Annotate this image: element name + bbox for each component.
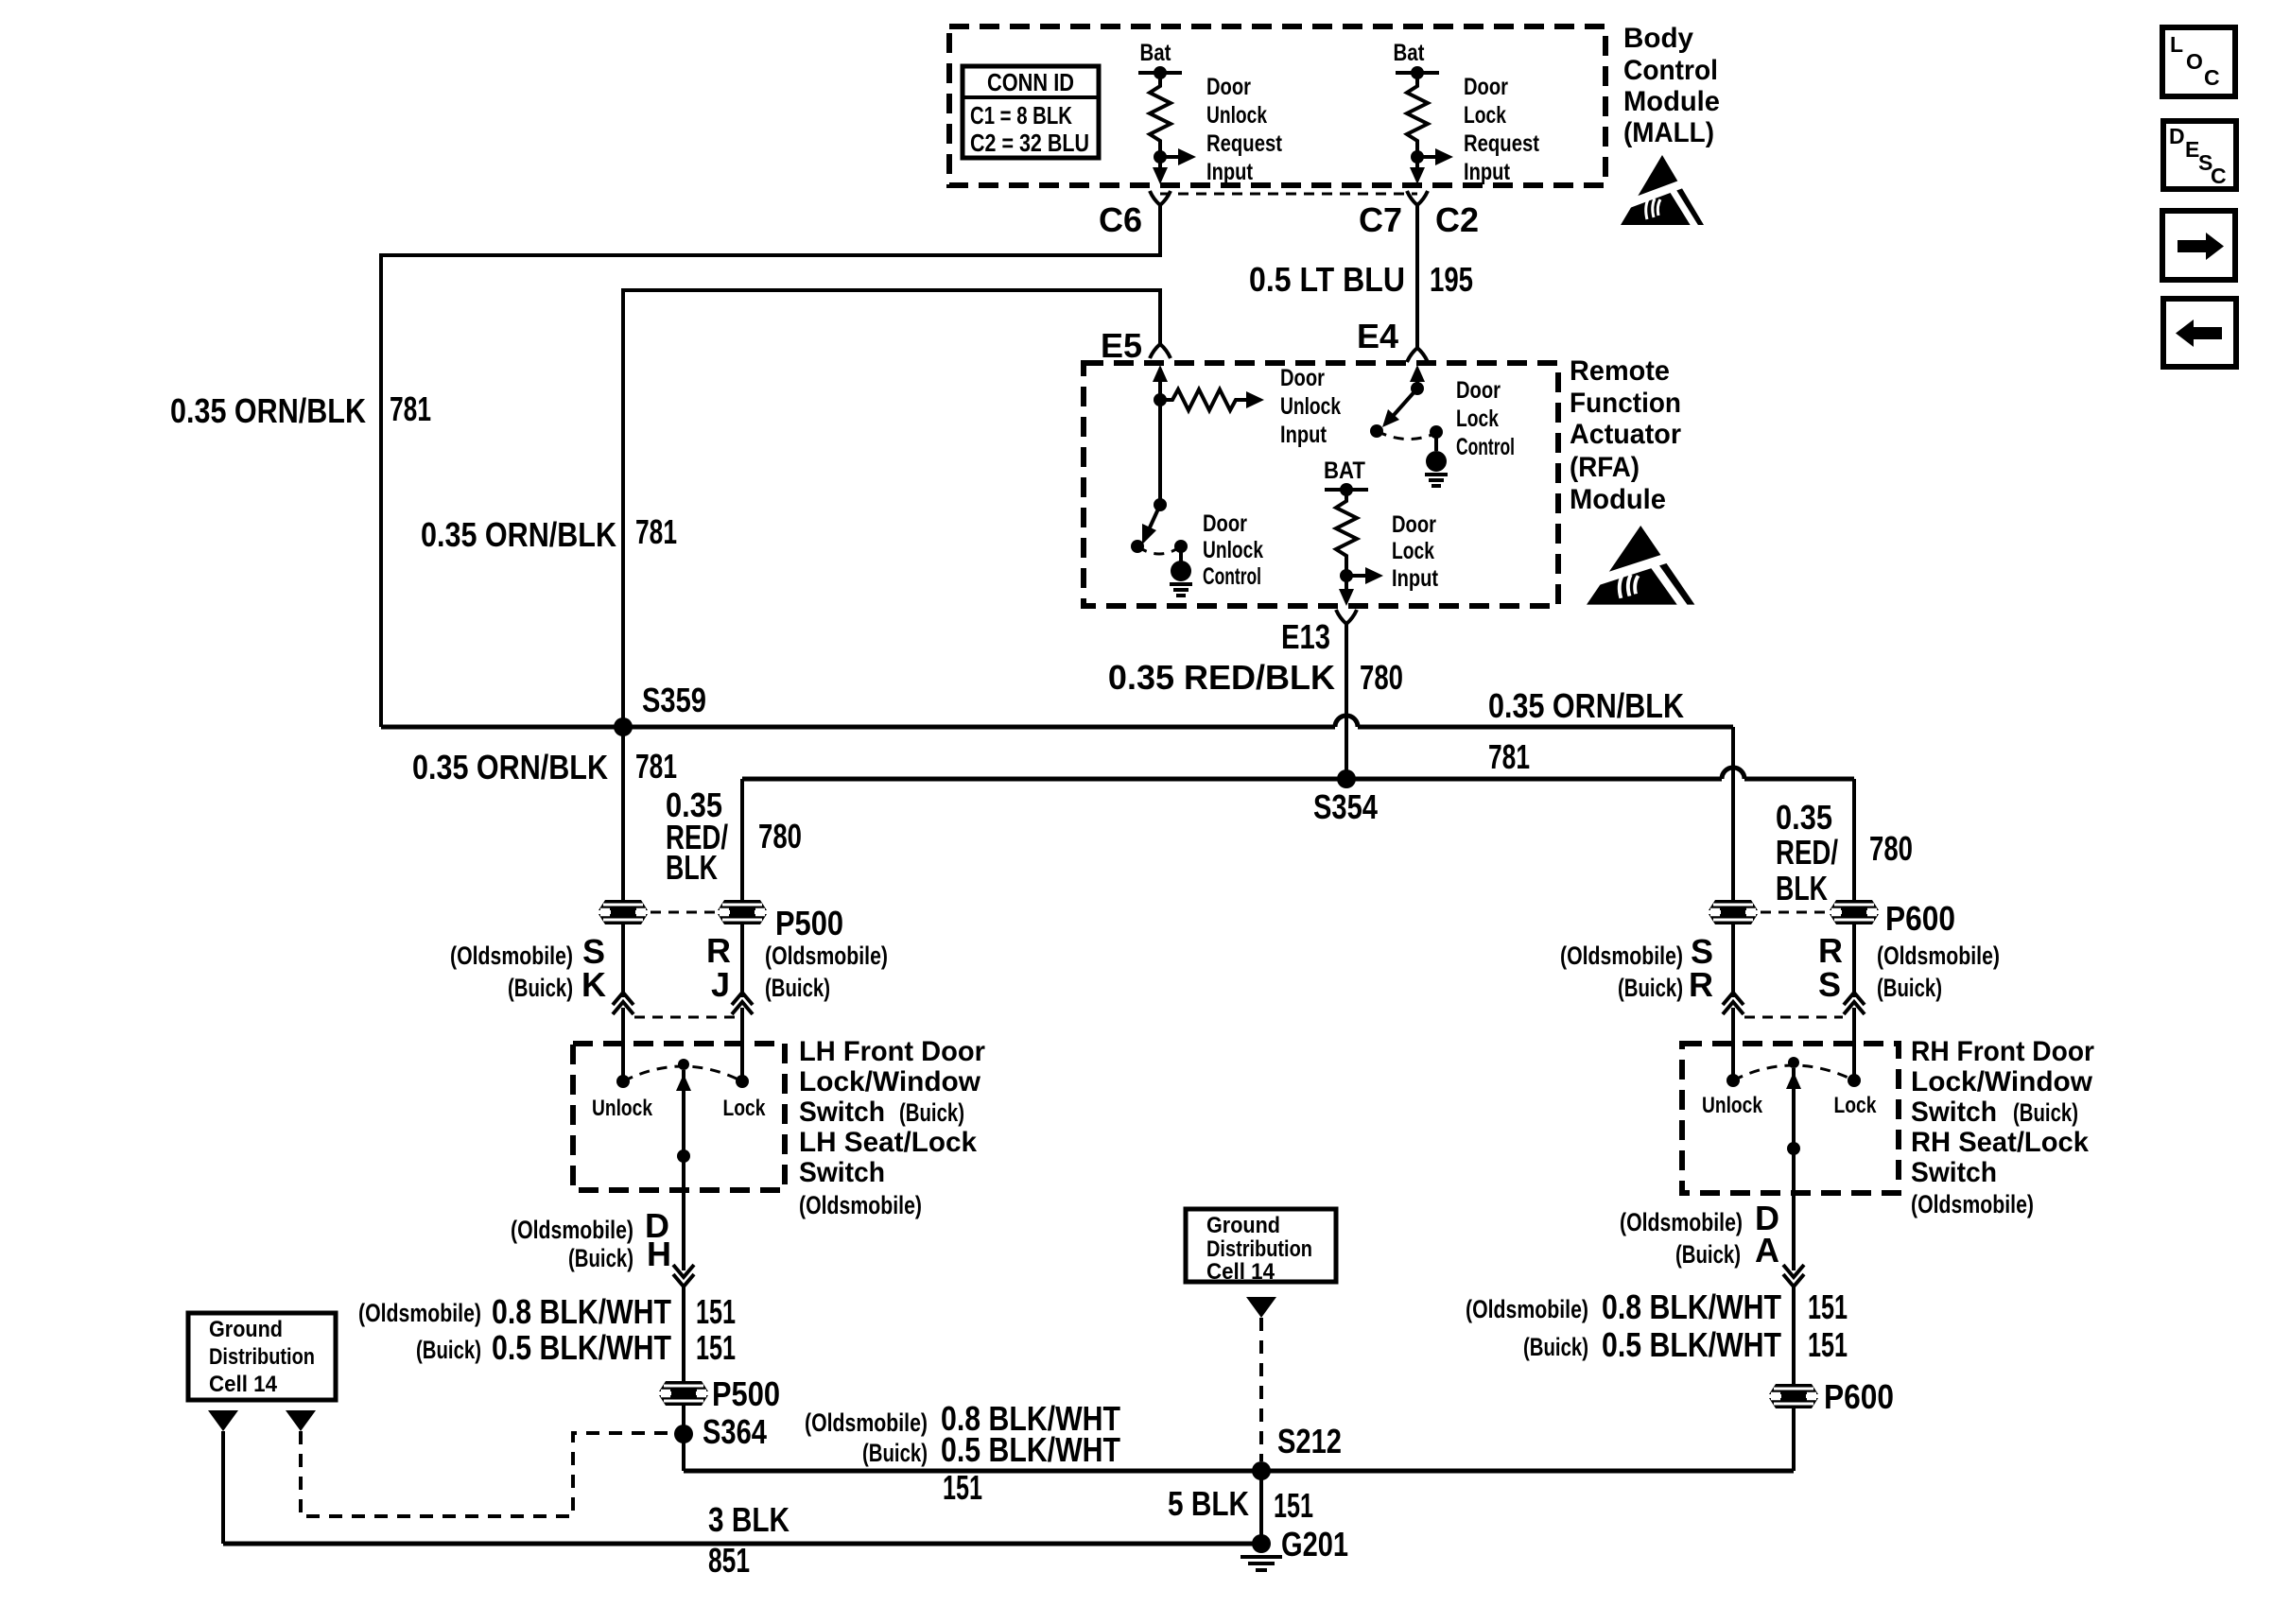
module box: Body Control Module [949,26,1605,185]
svg-text:781: 781 [635,512,677,551]
wire: E5 route to S359 [623,290,1160,727]
svg-text:Ground: Ground [1206,1213,1280,1238]
svg-text:781: 781 [1488,737,1530,776]
svg-text:Switch: Switch [799,1157,885,1188]
ground distribution box (middle) [1186,1209,1336,1282]
svg-text:BLK: BLK [1776,869,1828,907]
svg-text:(Buick): (Buick) [862,1439,928,1467]
svg-text:Remote: Remote [1570,355,1670,387]
switch: Door Lock Control (RFA) [1370,377,1515,486]
svg-text:Request: Request [1464,130,1540,157]
svg-text:0.8 BLK/WHT: 0.8 BLK/WHT [492,1292,671,1331]
connector P500 (left half) [599,900,648,924]
svg-text:K: K [581,965,606,1004]
svg-text:Lock: Lock [1456,406,1499,432]
wire: C6 to left drop [381,205,1160,727]
connector P600 (left half) [1709,900,1758,924]
wire: C7 to E4, 0.5 LT BLU 195 [1415,205,1419,348]
wire: LH common down [682,1190,685,1270]
svg-text:C2 = 32 BLU: C2 = 32 BLU [970,129,1089,157]
svg-text:RH Front Door: RH Front Door [1911,1036,2094,1067]
module box: Remote Function Actuator [1084,363,1558,606]
svg-text:(Oldsmobile): (Oldsmobile) [358,1299,481,1327]
svg-text:P600: P600 [1824,1377,1894,1416]
svg-text:(Buick): (Buick) [568,1244,633,1272]
resistor: BAT / Door Lock Input (RFA) [1324,458,1439,606]
dashed link: GD box to S364 [301,1431,673,1516]
svg-text:0.35 ORN/BLK: 0.35 ORN/BLK [1488,686,1684,725]
P500 tie line [651,911,715,914]
svg-text:RED/: RED/ [1776,833,1838,872]
svg-text:0.5 BLK/WHT: 0.5 BLK/WHT [492,1328,671,1367]
svg-text:(Buick): (Buick) [1675,1240,1741,1269]
svg-text:Unlock: Unlock [1203,537,1263,563]
P600 tie line [1761,911,1825,914]
CONN ID table [963,66,1099,158]
svg-text:(Oldsmobile): (Oldsmobile) [805,1408,928,1437]
wire: S359 down to P500 left [621,727,625,997]
svg-text:P500: P500 [775,904,843,942]
wire: RED/BLK down to P500 right [740,779,744,997]
BCM title [1623,23,1720,148]
resistor: Door Lock Request Input (BCM) [1394,40,1540,185]
connector E5 [1150,344,1171,358]
svg-text:151: 151 [1274,1486,1313,1525]
RH box title [1911,1036,2094,1188]
svg-text:(Buick): (Buick) [1618,974,1683,1002]
solenoid + ground (Door Lock Control) [1430,425,1443,439]
svg-text:LH Seat/Lock: LH Seat/Lock [799,1127,977,1158]
svg-text:151: 151 [943,1468,982,1507]
RFA title [1570,355,1681,515]
junction S364 [674,1425,693,1443]
svg-text:L: L [2170,32,2183,57]
svg-text:D: D [2169,124,2185,148]
wire: RED/BLK drop to P600 right [1852,779,1856,997]
svg-text:Control: Control [1623,55,1718,86]
svg-text:Lock: Lock [1464,102,1506,129]
svg-text:(Buick): (Buick) [416,1336,481,1364]
svg-text:Bat: Bat [1394,40,1426,66]
connector C6 [1150,191,1171,205]
svg-text:Request: Request [1206,130,1283,157]
svg-text:Door: Door [1456,377,1501,404]
DESC icon [2163,121,2236,189]
svg-text:Actuator: Actuator [1570,419,1681,450]
RH switch common arm arrow [1786,1072,1801,1089]
ground bus 3 BLK 851 [223,1542,1261,1546]
svg-text:Unlock: Unlock [592,1096,653,1121]
wire: P600 down to ground line [1792,1408,1796,1471]
svg-text:0.35 ORN/BLK: 0.35 ORN/BLK [421,515,616,554]
svg-text:Control: Control [1456,434,1515,460]
svg-text:G201: G201 [1281,1525,1348,1564]
svg-text:C1 = 8 BLK: C1 = 8 BLK [970,101,1072,130]
svg-text:Input: Input [1464,159,1511,185]
svg-text:S354: S354 [1313,787,1378,826]
svg-text:LH Front Door: LH Front Door [799,1036,985,1067]
svg-text:Lock: Lock [723,1096,767,1121]
connector C7 [1407,191,1428,205]
LOC icon [2162,27,2235,96]
svg-text:0.35 ORN/BLK: 0.35 ORN/BLK [412,748,608,786]
LH switch common arm arrow [676,1074,691,1091]
svg-text:J: J [711,965,730,1004]
svg-text:S: S [1818,965,1841,1004]
wire: trunk drop to P600 left [1731,727,1735,997]
svg-text:Distribution: Distribution [209,1344,315,1370]
inline connector chevrons (LH pair) [613,993,633,1005]
connector P500 (bottom) [659,1381,708,1406]
connector tie line C6-C7 [1160,193,1417,196]
resistor: Door Unlock Input (RFA) [1154,365,1341,448]
svg-text:(Oldsmobile): (Oldsmobile) [1877,942,2000,970]
svg-text:H: H [647,1235,671,1273]
right-arrow icon [2162,211,2235,280]
svg-text:5 BLK: 5 BLK [1168,1484,1249,1523]
solenoid + ground (Door Unlock Control) [1174,540,1188,553]
svg-text:0.8 BLK/WHT: 0.8 BLK/WHT [1602,1287,1781,1326]
svg-text:Bat: Bat [1140,40,1172,66]
svg-text:Cell 14: Cell 14 [1206,1259,1275,1285]
wire: E13 down to S354 [1345,624,1348,779]
svg-text:(Oldsmobile): (Oldsmobile) [1911,1190,2034,1218]
svg-text:Door: Door [1464,74,1508,100]
ESD symbol (BCM) [1621,155,1704,227]
svg-text:(Buick): (Buick) [765,974,830,1002]
LH box title [799,1036,985,1188]
svg-text:0.35: 0.35 [1776,798,1832,837]
left-arrow icon [2163,299,2236,367]
svg-text:Module: Module [1570,484,1666,515]
wire label 0.35 RED/ BLK 780 (left drop) [666,786,802,887]
svg-text:Switch: Switch [1911,1157,1997,1188]
svg-text:Input: Input [1280,422,1327,448]
dashed drop to S212 [1259,1318,1263,1461]
inline connector chevrons (LH common) [673,1265,694,1277]
svg-text:0.35 ORN/BLK: 0.35 ORN/BLK [170,391,366,430]
svg-text:781: 781 [635,747,677,786]
svg-text:C: C [2204,65,2220,90]
wire: GD box left down to ground bus [221,1431,225,1544]
svg-text:780: 780 [1360,658,1403,697]
svg-text:(Oldsmobile): (Oldsmobile) [799,1191,922,1219]
svg-text:151: 151 [1808,1325,1848,1364]
ground G201 [1252,1534,1271,1553]
svg-text:151: 151 [1808,1287,1848,1326]
svg-text:RH Seat/Lock: RH Seat/Lock [1911,1127,2089,1158]
svg-text:R: R [1818,931,1843,970]
svg-text:CONN ID: CONN ID [987,68,1074,96]
svg-text:0.35 RED/BLK: 0.35 RED/BLK [1108,658,1335,697]
svg-text:C2: C2 [1435,200,1479,239]
svg-text:O: O [2186,49,2203,74]
wire: RH common down [1792,1193,1796,1270]
RFA entry arrow E5 [1153,365,1168,382]
svg-text:(Oldsmobile): (Oldsmobile) [1620,1208,1743,1236]
svg-text:R: R [1689,965,1713,1004]
svg-text:0.5 BLK/WHT: 0.5 BLK/WHT [1602,1325,1781,1364]
svg-text:A: A [1755,1231,1779,1270]
svg-text:Function: Function [1570,388,1681,419]
svg-text:(Buick): (Buick) [2013,1098,2078,1127]
resistor: Door Unlock Request Input (BCM) [1138,40,1283,185]
svg-text:Switch: Switch [799,1097,885,1128]
svg-text:E5: E5 [1101,326,1142,365]
connector P600 (bottom) [1769,1384,1818,1408]
svg-text:(Buick): (Buick) [899,1098,964,1127]
svg-text:(MALL): (MALL) [1623,117,1714,148]
svg-text:Body: Body [1623,23,1693,54]
wire label 0.35 RED/ BLK 780 (right drop) [1776,798,1913,907]
junction S212 [1252,1461,1271,1480]
svg-text:P500: P500 [712,1374,780,1413]
svg-text:Unlock: Unlock [1702,1093,1763,1118]
inline connector chevrons (RH pair) [1723,993,1744,1005]
svg-text:Door: Door [1280,365,1325,391]
wire: S212 down to G201 [1259,1471,1263,1544]
svg-text:Distribution: Distribution [1206,1236,1312,1262]
connector P500 (right half) [718,900,767,924]
svg-text:780: 780 [1869,829,1913,868]
svg-text:Lock/Window: Lock/Window [799,1066,981,1097]
svg-text:851: 851 [708,1541,750,1580]
RH switch contacts [1726,1074,1740,1087]
svg-text:Lock/Window: Lock/Window [1911,1066,2093,1097]
svg-text:Unlock: Unlock [1280,393,1341,420]
svg-text:S364: S364 [703,1412,767,1451]
svg-text:Control: Control [1203,563,1261,590]
ESD symbol (RFA) [1587,526,1694,607]
svg-text:R: R [706,931,731,970]
wire: RED/BLK trunk line (S354 left/right, hop over P600 drop) [742,777,1722,782]
ground distribution box (left) [188,1313,336,1400]
svg-text:Lock: Lock [1392,538,1434,564]
wire: ORN/BLK trunk line (S359 right, hop over E13) [381,725,1335,730]
svg-text:195: 195 [1430,260,1473,299]
switch: Door Unlock Control (RFA) [1131,400,1263,596]
svg-text:0.5 LT BLU: 0.5 LT BLU [1249,260,1405,299]
switch box: LH Front Door Lock/Window Switch [573,1044,785,1190]
svg-text:Cell 14: Cell 14 [209,1372,278,1397]
svg-text:BLK: BLK [666,848,718,887]
ground distribution triangles (left) [208,1410,238,1431]
svg-text:(Oldsmobile): (Oldsmobile) [765,942,888,970]
svg-text:781: 781 [390,389,431,428]
svg-text:Input: Input [1392,565,1439,592]
ground wire line S364 to S212 to RH drop [684,1469,1794,1474]
svg-text:S359: S359 [642,681,706,719]
connector E13 [1336,610,1357,624]
junction S359 [614,717,633,736]
svg-text:151: 151 [696,1328,736,1367]
svg-text:BAT: BAT [1324,458,1365,484]
svg-text:(Oldsmobile): (Oldsmobile) [1466,1295,1588,1323]
RFA entry arrow E4 [1410,365,1425,382]
svg-text:C: C [2211,164,2227,188]
svg-text:(Oldsmobile): (Oldsmobile) [1560,942,1683,970]
svg-text:Module: Module [1623,86,1720,117]
svg-text:Door: Door [1392,511,1436,538]
ground distribution triangle (middle) [1246,1297,1276,1318]
svg-text:0.5 BLK/WHT: 0.5 BLK/WHT [941,1430,1120,1469]
svg-text:Ground: Ground [209,1317,283,1342]
svg-text:P600: P600 [1885,899,1955,938]
svg-text:Door: Door [1206,74,1251,100]
svg-text:(Buick): (Buick) [1523,1333,1588,1361]
svg-text:(Oldsmobile): (Oldsmobile) [511,1216,633,1244]
svg-text:Unlock: Unlock [1206,102,1267,129]
connector E4 [1407,348,1428,362]
svg-text:Door: Door [1203,510,1247,537]
svg-text:780: 780 [758,817,802,855]
svg-text:3 BLK: 3 BLK [708,1500,789,1539]
switch box: RH Front Door Lock/Window Switch [1682,1044,1899,1193]
svg-text:E13: E13 [1281,617,1330,656]
svg-text:(Buick): (Buick) [1877,974,1942,1002]
svg-text:(RFA): (RFA) [1570,452,1640,483]
svg-text:C6: C6 [1099,200,1142,239]
svg-text:(Buick): (Buick) [508,974,573,1002]
connector P600 (right half) [1830,900,1879,924]
LH switch contacts [616,1075,630,1088]
svg-text:Input: Input [1206,159,1254,185]
svg-text:Lock: Lock [1834,1093,1878,1118]
junction S354 [1337,769,1356,788]
svg-text:151: 151 [696,1292,736,1331]
svg-text:S212: S212 [1277,1422,1342,1460]
svg-text:E4: E4 [1357,317,1398,355]
inline connector chevrons (RH common) [1783,1265,1804,1277]
svg-text:C7: C7 [1359,200,1402,239]
svg-text:Switch: Switch [1911,1097,1997,1128]
svg-text:(Oldsmobile): (Oldsmobile) [450,942,573,970]
